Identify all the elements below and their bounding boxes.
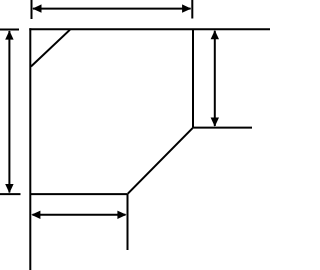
node bottom dimension right arrowhead (117, 211, 126, 219)
node top dimension right arrowhead (182, 4, 191, 12)
wire left dimension line (8, 31, 10, 193)
node top dimension left arrowhead (32, 4, 41, 12)
node left dimension top extension tick (0, 29, 19, 31)
wire left outer edge (29, 28, 31, 270)
node bottom dimension left arrowhead (31, 211, 40, 219)
wire corner mitre diagonal (31, 30, 70, 67)
wire inner corner diagonal (128, 128, 193, 193)
wire inner edge right run (192, 127, 252, 129)
node right dimension up arrowhead (211, 30, 219, 39)
node left dimension down arrowhead (5, 184, 13, 193)
wire bottom seam horizontal (30, 193, 127, 195)
node top dimension right extension tick (191, 0, 193, 19)
node right dimension down arrowhead (211, 118, 219, 127)
wire right seam vertical (192, 29, 194, 127)
node top dimension left extension tick (31, 0, 33, 19)
wire bottom dimension line (33, 214, 126, 216)
wire right dimension line (214, 31, 216, 126)
node left dimension bottom extension tick (0, 193, 21, 195)
node left dimension up arrowhead (5, 31, 13, 40)
wire top dimension line (33, 8, 191, 10)
wire inner edge bottom run (127, 194, 129, 250)
wire top outer edge (29, 28, 270, 30)
